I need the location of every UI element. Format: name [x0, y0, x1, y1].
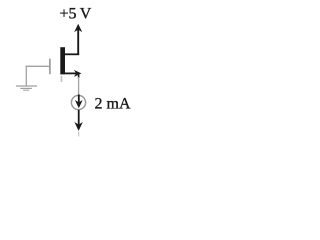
svg-text:2 mA: 2 mA	[95, 95, 131, 112]
svg-text:+5 V: +5 V	[60, 5, 92, 22]
